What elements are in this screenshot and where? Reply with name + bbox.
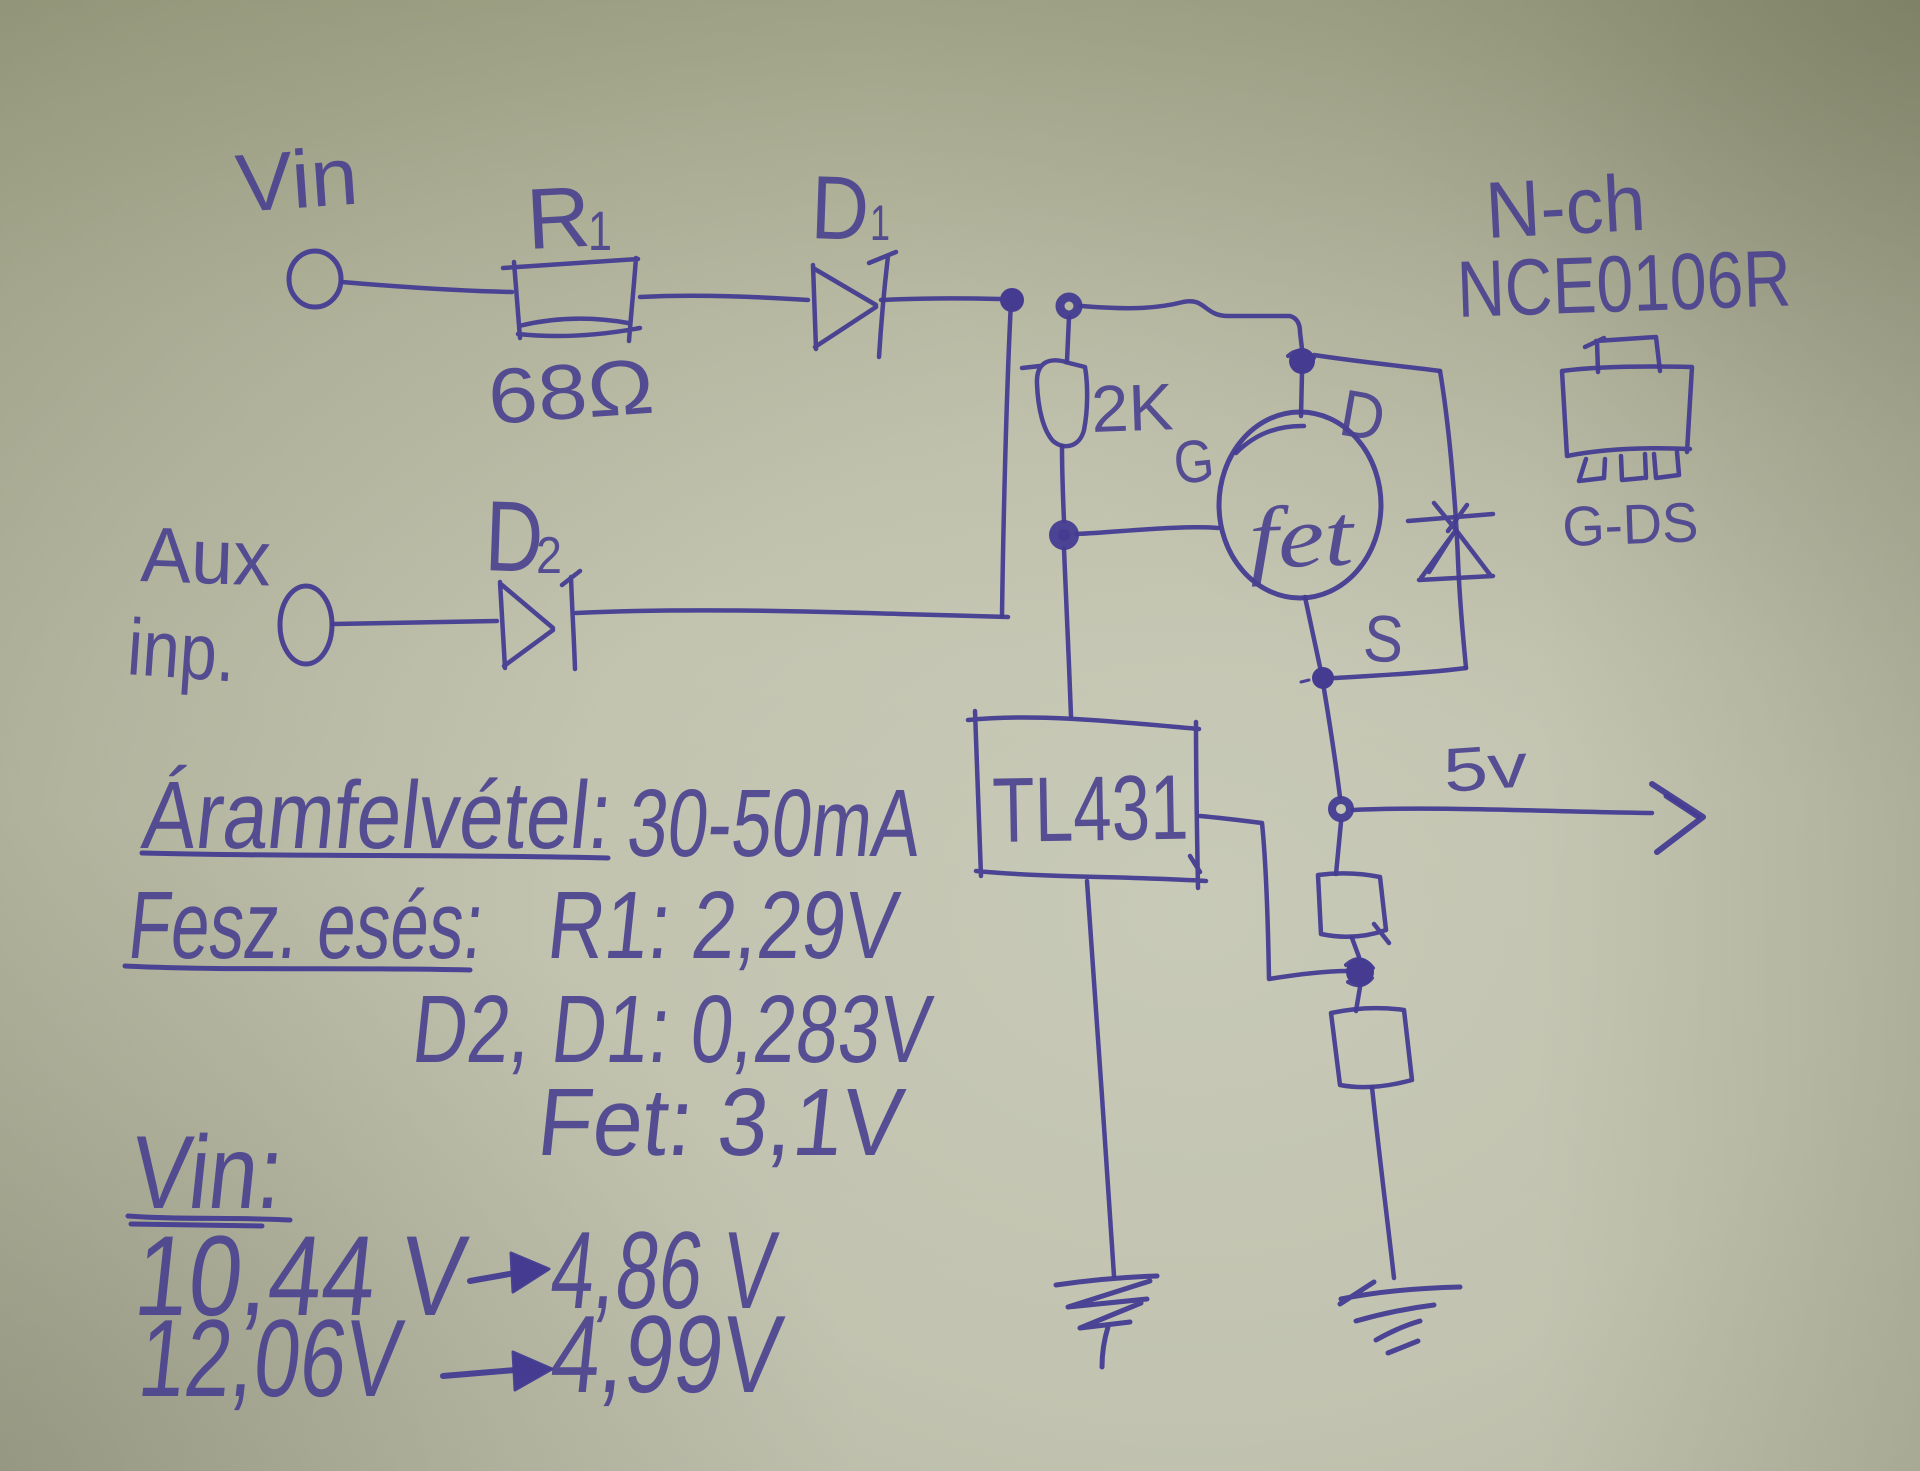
- svg-text:30-50mA: 30-50mA: [623, 770, 927, 877]
- arrow 5v output: [1652, 784, 1703, 852]
- package tab: [1585, 337, 1660, 372]
- wire R1 to D1: [640, 296, 808, 300]
- svg-text:Aux: Aux: [139, 510, 272, 602]
- wire divider node to R lower: [1356, 987, 1360, 1011]
- wire drain stub: [1301, 373, 1302, 416]
- resistor 2K: [1022, 360, 1087, 446]
- svg-text:S: S: [1361, 600, 1406, 677]
- wire D1 to node A: [881, 298, 1000, 300]
- underline note 5: [128, 1216, 290, 1226]
- node 5v junction: [1332, 800, 1350, 818]
- wire 5v node to R upper: [1336, 822, 1341, 874]
- svg-text:Vin: Vin: [233, 131, 361, 230]
- diode D2: [500, 571, 580, 669]
- junction drain node: [1289, 348, 1315, 374]
- svg-text:TL431: TL431: [992, 757, 1190, 862]
- svg-text:12,06V: 12,06V: [133, 1297, 408, 1420]
- svg-text:4,99V: 4,99V: [545, 1293, 788, 1416]
- svg-text:Fet: 3,1V: Fet: 3,1V: [533, 1069, 909, 1176]
- svg-text:inp.: inp.: [125, 602, 239, 698]
- wire Vin to R1: [342, 282, 512, 292]
- wire node B to drain: [1081, 301, 1302, 349]
- body diode: [1408, 503, 1493, 580]
- IC TL431 box: [968, 711, 1206, 888]
- wire gate node to FET gate: [1077, 527, 1218, 534]
- wire TL431 anode to ground: [1087, 881, 1114, 1276]
- resistor 2K stub top: [1067, 317, 1069, 361]
- package body: [1562, 366, 1692, 456]
- wire loop right: [1440, 371, 1466, 668]
- junction node B: [1060, 297, 1078, 315]
- svg-text:G-DS: G-DS: [1561, 490, 1699, 558]
- svg-text:Fesz. esés:: Fesz. esés:: [124, 872, 489, 979]
- junction gate node: [1054, 525, 1074, 545]
- ground left: [1056, 1276, 1157, 1367]
- arrow note 7: [443, 1370, 515, 1376]
- wire loop top: [1314, 355, 1440, 371]
- resistor R1: [503, 258, 640, 341]
- svg-text:fet: fet: [1247, 487, 1357, 588]
- resistor divider upper: [1318, 873, 1389, 943]
- resistor 2K stub bottom: [1062, 446, 1064, 521]
- underline note 2: [125, 966, 470, 970]
- package leads: [1579, 452, 1679, 481]
- node Vin terminal: [289, 251, 341, 307]
- svg-text:5v: 5v: [1441, 731, 1530, 806]
- svg-text:D2, D1: 0,283V: D2, D1: 0,283V: [408, 976, 937, 1083]
- wire source stub: [1305, 597, 1320, 667]
- svg-text:D: D: [809, 158, 870, 260]
- svg-text:2K: 2K: [1090, 369, 1175, 446]
- junction source node: [1312, 667, 1334, 689]
- svg-text:1: 1: [588, 199, 612, 262]
- wire 5v output: [1353, 809, 1652, 813]
- junction node A: [1000, 288, 1024, 312]
- wire R lower to ground: [1372, 1087, 1394, 1278]
- wire R upper to divider node: [1352, 938, 1359, 957]
- junction divider node: [1346, 958, 1374, 986]
- mosfet FET circle: [1219, 412, 1381, 598]
- wire Aux to D2: [333, 621, 497, 624]
- ground right: [1340, 1282, 1460, 1353]
- wire TL431 cathode to divider node: [1200, 816, 1347, 979]
- svg-text:NCE0106R: NCE0106R: [1455, 233, 1792, 334]
- svg-text:1: 1: [870, 195, 890, 251]
- wire riser to node A: [1002, 302, 1011, 616]
- svg-text:68Ω: 68Ω: [485, 342, 657, 441]
- svg-text:R1: 2,29V: R1: 2,29V: [543, 872, 904, 979]
- svg-text:2: 2: [536, 527, 562, 585]
- node Aux terminal: [280, 586, 332, 664]
- arrow note 6: [470, 1273, 515, 1281]
- wire gate node to TL431: [1064, 549, 1071, 716]
- wire D2 to riser: [576, 610, 1008, 617]
- underline note 1: [142, 853, 608, 858]
- wire loop bottom: [1334, 668, 1466, 678]
- wire source to 5v node: [1324, 689, 1340, 797]
- resistor divider lower: [1331, 1008, 1412, 1087]
- diode D1: [813, 252, 896, 357]
- svg-text:G: G: [1170, 426, 1217, 497]
- svg-text:R: R: [524, 169, 593, 268]
